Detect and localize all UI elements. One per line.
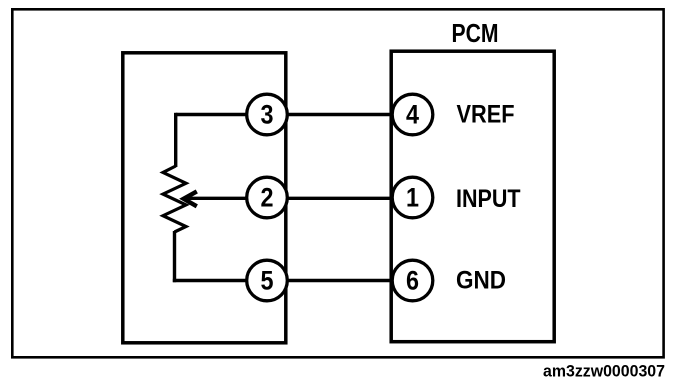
wire VREF row: pin 3 to pin 4	[176, 113, 392, 116]
svg-text:1: 1	[406, 183, 419, 213]
svg-text:VREF: VREF	[457, 100, 515, 128]
svg-text:2: 2	[261, 183, 274, 213]
svg-text:6: 6	[406, 266, 419, 296]
wire INPUT row: wiper arrow to pin 1	[186, 197, 393, 200]
wire GND row: pin 5 to pin 6	[173, 279, 392, 282]
pin 1 circle	[392, 177, 433, 218]
sensor box (potentiometer housing)	[123, 53, 286, 343]
svg-text:GND: GND	[456, 267, 506, 295]
pin 3 circle	[247, 94, 288, 135]
wiper arrowhead pointing at potentiometer	[184, 191, 197, 206]
svg-text:4: 4	[406, 100, 419, 130]
wire from potentiometer bottom down to GND row	[173, 231, 176, 282]
pin 6 circle	[392, 260, 433, 301]
svg-text:5: 5	[261, 266, 274, 296]
svg-text:am3zzw0000307: am3zzw0000307	[543, 363, 665, 381]
pin 2 circle	[247, 177, 288, 218]
wire sensor left drop from VREF row to potentiometer top	[174, 113, 177, 167]
svg-text:INPUT: INPUT	[456, 185, 521, 213]
svg-text:3: 3	[261, 100, 274, 130]
pin 4 circle	[392, 94, 433, 135]
PCM box U1	[391, 51, 554, 342]
pin 5 circle	[247, 260, 288, 301]
potentiometer R1 zigzag	[163, 166, 186, 232]
svg-text:PCM: PCM	[452, 18, 499, 48]
